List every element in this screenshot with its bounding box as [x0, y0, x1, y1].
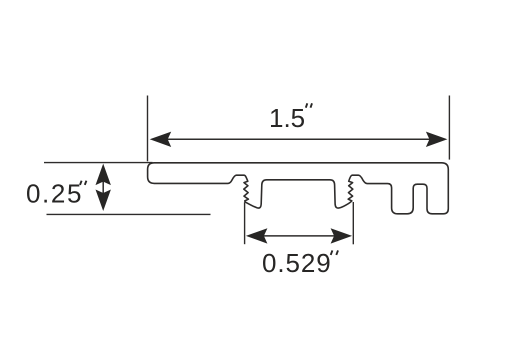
extension line left of 1.5 dim	[147, 96, 149, 162]
dimension line 0.529	[262, 235, 336, 237]
svg-text:1.5: 1.5	[269, 103, 305, 133]
extension line right of 1.5 dim	[448, 96, 450, 160]
extension line top of 0.25 dim	[44, 162, 153, 164]
double prime of 1.5	[306, 103, 312, 107]
molding profile outline	[148, 163, 449, 214]
double prime of 0.529	[331, 250, 338, 255]
extension line left of 0.529 dim	[244, 202, 246, 244]
arrowhead right 1.5	[426, 132, 448, 147]
extension line right of 0.529 dim	[352, 202, 354, 244]
arrowhead up 0.25	[96, 164, 111, 186]
arrowhead down 0.25	[96, 190, 111, 212]
dimension line 1.5	[167, 138, 431, 140]
arrowhead right 0.529	[331, 228, 353, 243]
double prime of 0.25	[80, 181, 86, 185]
svg-text:0.529: 0.529	[262, 248, 332, 278]
dimension line 0.25	[102, 179, 104, 195]
svg-text:0.25: 0.25	[26, 179, 83, 209]
extension line bottom of 0.25 dim	[47, 213, 211, 215]
arrowhead left 1.5	[150, 132, 172, 147]
arrowhead left 0.529	[246, 228, 268, 243]
